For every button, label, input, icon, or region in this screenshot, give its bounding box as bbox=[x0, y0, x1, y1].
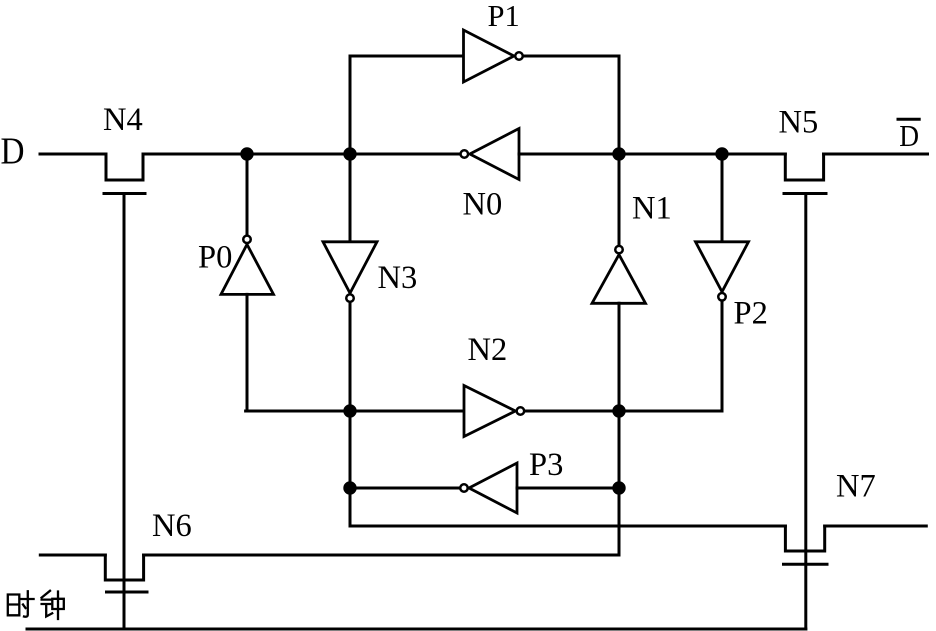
inverter P1 bbox=[464, 30, 523, 82]
svg-text:N6: N6 bbox=[152, 508, 192, 544]
svg-text:N5: N5 bbox=[779, 105, 819, 141]
wire N3 input down bbox=[349, 154, 352, 242]
svg-text:P2: P2 bbox=[734, 296, 768, 332]
wire N2 input row bbox=[246, 410, 464, 413]
label Dbar bbox=[898, 119, 919, 153]
node N2 input junction bbox=[343, 404, 356, 417]
svg-text:N4: N4 bbox=[103, 102, 143, 138]
wire main rail right bbox=[519, 153, 785, 156]
svg-text:P1: P1 bbox=[488, 0, 520, 33]
node P3 output junction bbox=[343, 481, 356, 494]
node Qb junction N1 bbox=[612, 147, 625, 160]
inverter N1 bbox=[592, 246, 646, 303]
wire P0 output up bbox=[246, 154, 249, 234]
node Q junction P0 bbox=[240, 147, 253, 160]
wire N1 output up bbox=[618, 154, 621, 245]
node N2 output junction bbox=[612, 404, 625, 417]
inverter P3 bbox=[460, 463, 517, 513]
svg-text:N3: N3 bbox=[378, 260, 418, 296]
node Q junction N3 bbox=[343, 147, 356, 160]
wire N4 gate to clock bbox=[123, 194, 126, 630]
svg-text:N7: N7 bbox=[836, 469, 876, 505]
wire N2 output row bbox=[525, 410, 722, 413]
svg-text:N2: N2 bbox=[468, 332, 508, 368]
inverter N2 bbox=[464, 386, 524, 437]
wire P1 output drop bbox=[524, 56, 619, 154]
wire main rail left bbox=[143, 153, 459, 156]
inverter N0 bbox=[461, 129, 519, 180]
inverter P2 bbox=[696, 242, 749, 301]
node Qb junction P2 bbox=[715, 147, 728, 160]
svg-text:D: D bbox=[1, 131, 25, 173]
wire P0 input down bbox=[246, 294, 249, 411]
wire P2 output down bbox=[721, 302, 724, 411]
inverter N3 bbox=[323, 242, 377, 302]
wire P1 input riser bbox=[350, 56, 464, 154]
node P3 input junction bbox=[612, 481, 625, 494]
wire P3 output row bbox=[350, 487, 459, 490]
svg-text:P3: P3 bbox=[529, 447, 563, 483]
transistor N5 bbox=[784, 154, 826, 194]
svg-text:N1: N1 bbox=[632, 191, 672, 227]
svg-text:D: D bbox=[899, 119, 919, 153]
transistor N7 bbox=[784, 526, 828, 564]
svg-text:P0: P0 bbox=[198, 240, 232, 276]
svg-text:N0: N0 bbox=[463, 187, 503, 223]
transistor N6 bbox=[105, 555, 147, 592]
wire N3 output down bbox=[350, 303, 785, 526]
wire N5 gate to clock bbox=[804, 194, 807, 630]
wire P3 input row bbox=[517, 487, 619, 490]
wire N7 right stub bbox=[825, 525, 927, 528]
wire D input bbox=[40, 153, 106, 156]
wire Dbar output bbox=[824, 153, 928, 156]
wire N1 input down bbox=[144, 303, 619, 555]
wire P2 input down bbox=[721, 154, 724, 242]
transistor N4 bbox=[104, 154, 145, 194]
wire clock line bbox=[27, 628, 806, 631]
label clock (shi zhong) bbox=[8, 591, 64, 619]
wire N6 left stub bbox=[40, 554, 105, 557]
inverter P0 bbox=[221, 236, 274, 295]
